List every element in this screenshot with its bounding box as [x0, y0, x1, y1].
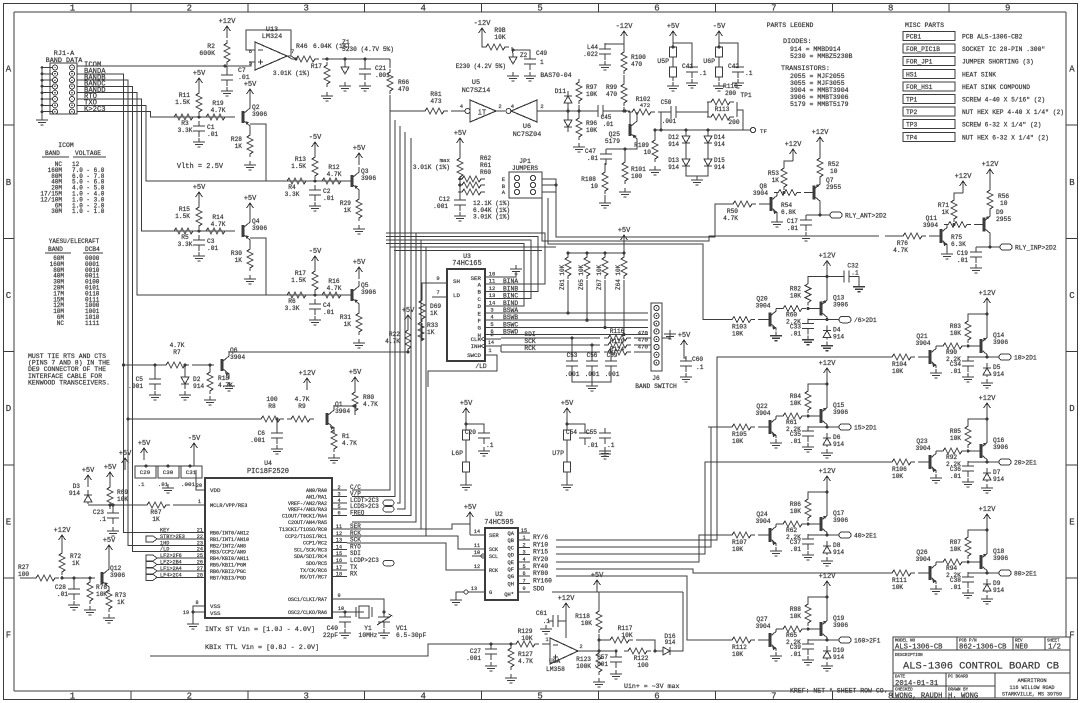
svg-text:10K: 10K — [732, 651, 743, 658]
svg-text:RB6/KBI2/PGC: RB6/KBI2/PGC — [210, 569, 246, 575]
svg-text:3906: 3906 — [252, 111, 267, 118]
svg-text:C: C — [6, 291, 12, 301]
svg-text:R52: R52 — [828, 161, 839, 168]
svg-text:.01: .01 — [957, 257, 968, 264]
svg-text:R14: R14 — [212, 214, 223, 221]
power +5V pullups — [621, 235, 628, 247]
svg-text:R8: R8 — [268, 403, 276, 410]
wire r118 node — [598, 634, 600, 651]
driver cell 20 (Q23/Q16) — [868, 461, 888, 463]
svg-text:R60: R60 — [786, 312, 797, 319]
svg-text:10: 10 — [1000, 200, 1008, 207]
power +12V R2 — [224, 26, 231, 38]
wire TF line — [655, 129, 750, 131]
svg-text:AN1/RA1: AN1/RA1 — [306, 494, 327, 500]
svg-text:U6: U6 — [523, 123, 531, 131]
svg-text:.1: .1 — [99, 516, 107, 523]
svg-text:DCB4: DCB4 — [85, 246, 100, 253]
svg-text:C20: C20 — [465, 429, 476, 436]
svg-text:.01: .01 — [587, 442, 598, 449]
svg-text:13: 13 — [336, 538, 342, 544]
resistor R129 — [512, 641, 539, 647]
svg-text:18: 18 — [336, 572, 342, 578]
svg-text:3.01K (1%): 3.01K (1%) — [413, 164, 450, 171]
svg-text:1K: 1K — [772, 177, 780, 184]
svg-text:2: 2 — [187, 692, 192, 702]
svg-text:PCB ALS-1306-CB2: PCB ALS-1306-CB2 — [962, 34, 1023, 41]
svg-text:.01: .01 — [950, 368, 961, 375]
svg-text:CCP1/RC2: CCP1/RC2 — [303, 541, 327, 547]
svg-text:.01: .01 — [238, 74, 250, 81]
svg-text:R107: R107 — [732, 539, 747, 546]
capacitor C45 — [593, 105, 609, 117]
svg-text:R62: R62 — [786, 527, 797, 534]
svg-text:Q19: Q19 — [833, 615, 845, 622]
svg-text:D: D — [1069, 404, 1074, 414]
wire top trunk1 — [295, 58, 297, 60]
svg-text:4: 4 — [522, 557, 525, 563]
svg-text:4.7K: 4.7K — [170, 342, 185, 349]
svg-text:473: 473 — [430, 98, 441, 105]
svg-text:74HC595: 74HC595 — [484, 519, 513, 527]
capacitor C7 — [221, 70, 233, 86]
wire bsw bus — [501, 312, 648, 314]
resistor R9B — [482, 44, 509, 50]
svg-text:10K: 10K — [790, 400, 801, 407]
resistor pullup Z61 — [565, 254, 571, 279]
svg-text:914: 914 — [833, 549, 844, 556]
resistor R108 — [602, 169, 608, 194]
wire JP1 right — [542, 179, 556, 192]
svg-text:R86: R86 — [790, 501, 801, 508]
wire R46-R17 — [322, 58, 390, 60]
svg-text:U3: U3 — [463, 253, 471, 260]
svg-text:3906: 3906 — [110, 572, 125, 579]
svg-text:STARKVILLE, MS 39759: STARKVILLE, MS 39759 — [1002, 692, 1062, 698]
svg-text:R106: R106 — [892, 466, 907, 473]
svg-text:YAESU/ELECRAFT: YAESU/ELECRAFT — [49, 238, 100, 245]
svg-text:4.7K: 4.7K — [327, 285, 342, 292]
svg-text:914 = MMBD914: 914 = MMBD914 — [790, 46, 841, 53]
svg-text:R85: R85 — [950, 428, 961, 435]
capacitor C21 — [359, 64, 371, 80]
svg-text:OSC2/CLKO/RA6: OSC2/CLKO/RA6 — [288, 610, 327, 616]
svg-text:4.7K: 4.7K — [363, 401, 378, 408]
svg-text:R129: R129 — [518, 628, 533, 635]
svg-text:3906: 3906 — [833, 622, 848, 629]
svg-text:C40: C40 — [327, 625, 339, 632]
svg-text:max: max — [440, 157, 451, 164]
svg-text:ALS-1306-CB: ALS-1306-CB — [895, 644, 943, 652]
svg-text:20: 20 — [196, 483, 202, 489]
svg-text:NE0: NE0 — [1015, 644, 1028, 652]
wire r129-opamp — [542, 644, 550, 645]
cap group C29C30C31 — [135, 466, 156, 478]
svg-text:1: 1 — [70, 692, 75, 702]
svg-text:VREF-/AN2/RA2: VREF-/AN2/RA2 — [288, 501, 327, 507]
driver cell 40 (Q24/Q17) — [708, 534, 728, 536]
svg-text:NC7SZ14: NC7SZ14 — [462, 87, 491, 95]
resistor pullup Z65 — [584, 254, 590, 279]
svg-text:Q26: Q26 — [916, 549, 928, 556]
ground C23 — [107, 527, 119, 536]
svg-text:.01: .01 — [323, 309, 334, 316]
svg-text:BAND SWITCH: BAND SWITCH — [635, 383, 677, 390]
svg-text:U6P: U6P — [703, 58, 715, 65]
svg-text:RY/6: RY/6 — [533, 534, 548, 541]
misc part row FOR_JP1 — [903, 57, 955, 66]
svg-text:U5: U5 — [472, 79, 480, 87]
svg-text:1K: 1K — [942, 209, 950, 216]
svg-text:NC7SZ04: NC7SZ04 — [513, 131, 542, 139]
wire divider node — [458, 181, 460, 192]
svg-text:74HC165: 74HC165 — [452, 260, 481, 268]
wire -12V node — [623, 107, 625, 111]
svg-text:3906: 3906 — [993, 555, 1008, 562]
svg-text:2055 = MJF2055: 2055 = MJF2055 — [790, 73, 845, 80]
svg-text:10K: 10K — [581, 620, 592, 627]
svg-text:.01: .01 — [158, 481, 169, 488]
svg-text:1.5K: 1.5K — [291, 163, 306, 170]
svg-text:C37: C37 — [790, 539, 801, 546]
diode D2 — [181, 375, 189, 389]
svg-text:+12V: +12V — [979, 290, 997, 298]
svg-text:QB: QB — [508, 538, 515, 544]
svg-text:H. WONG: H. WONG — [948, 693, 978, 701]
svg-text:+5V: +5V — [244, 81, 257, 89]
resistor R60 — [458, 189, 485, 195]
IC U3 74HC165 — [447, 269, 485, 361]
ground C7 — [221, 87, 233, 96]
svg-text:HEAT SINK: HEAT SINK — [962, 71, 996, 78]
svg-text:Q2: Q2 — [252, 104, 260, 111]
resistor R97 — [576, 79, 582, 104]
svg-text:R100: R100 — [631, 54, 646, 61]
svg-text:5179 = MMBT5179: 5179 = MMBT5179 — [790, 101, 849, 108]
resistor R2 — [224, 40, 230, 65]
svg-text:3904: 3904 — [915, 340, 930, 347]
resistor R61 — [458, 182, 485, 188]
svg-text:SCL/SCK/RC3: SCL/SCK/RC3 — [294, 547, 327, 553]
svg-text:Q13: Q13 — [833, 295, 845, 302]
svg-text:12: 12 — [489, 285, 496, 292]
bus taps thresholds — [124, 364, 151, 366]
svg-text:C30: C30 — [163, 469, 174, 476]
svg-text:CCP2/T1OSI/RC1: CCP2/T1OSI/RC1 — [285, 534, 327, 540]
svg-text:TP3: TP3 — [906, 122, 918, 129]
svg-text:KBIx TTL Vin = [0.8J - 2.0V]: KBIx TTL Vin = [0.8J - 2.0V] — [205, 644, 319, 652]
svg-text:3.3K: 3.3K — [178, 127, 193, 134]
capacitor C50 — [666, 106, 682, 118]
svg-text:RB2/INT2/AN8: RB2/INT2/AN8 — [210, 543, 246, 549]
svg-text:3055 = MJF3055: 3055 = MJF3055 — [790, 80, 845, 87]
svg-text:U5P: U5P — [657, 58, 669, 65]
testpoint TF — [750, 127, 755, 132]
svg-text:+5V: +5V — [454, 130, 467, 138]
diode D11b — [564, 118, 572, 132]
svg-text:+12V: +12V — [54, 527, 72, 535]
svg-text:R4: R4 — [288, 184, 296, 191]
svg-text:15: 15 — [336, 551, 342, 557]
svg-text:10K: 10K — [950, 435, 961, 442]
svg-text:5: 5 — [249, 60, 252, 67]
svg-text:914: 914 — [665, 639, 676, 646]
svg-text:5: 5 — [490, 321, 493, 328]
svg-text:Vlth = 2.5V: Vlth = 2.5V — [177, 163, 224, 171]
transistor Q1 — [326, 413, 329, 425]
resistor R124 — [604, 349, 631, 355]
svg-text:R12: R12 — [328, 164, 339, 171]
svg-text:914: 914 — [714, 141, 725, 148]
wire pullup joins — [567, 280, 569, 313]
ground C21 — [359, 82, 371, 91]
svg-text:R111: R111 — [892, 577, 907, 584]
wire sdi row — [501, 337, 600, 339]
svg-text:SOCKET IC 28-PIN .300": SOCKET IC 28-PIN .300" — [962, 46, 1045, 53]
svg-text:3904 = MMBT3904: 3904 = MMBT3904 — [790, 87, 849, 94]
IC U4 VDD pin — [196, 470, 205, 490]
svg-text:C21: C21 — [375, 65, 386, 72]
svg-text:RY20: RY20 — [533, 556, 548, 563]
svg-text:3: 3 — [304, 692, 309, 702]
svg-text:3: 3 — [490, 307, 493, 314]
svg-text:1.5K: 1.5K — [175, 99, 190, 106]
zener Z2 — [509, 55, 517, 64]
svg-text:470: 470 — [631, 61, 642, 68]
svg-text:R9: R9 — [298, 403, 306, 410]
svg-text:2: 2 — [522, 542, 525, 548]
svg-text:.1: .1 — [607, 442, 615, 449]
filter U7P — [564, 408, 571, 420]
svg-text:G: G — [478, 325, 482, 332]
svg-text:Q1: Q1 — [335, 401, 343, 408]
svg-text:DATE: DATE — [895, 676, 906, 680]
svg-text:1K: 1K — [117, 599, 125, 606]
svg-text:470: 470 — [398, 86, 409, 93]
svg-text:R50: R50 — [727, 208, 738, 215]
svg-text:/LD: /LD — [475, 363, 487, 370]
svg-text:C49: C49 — [536, 50, 547, 57]
wire Q1 col — [334, 406, 355, 415]
svg-text:9: 9 — [337, 593, 340, 599]
svg-text:C54: C54 — [566, 429, 577, 436]
svg-text:+5V: +5V — [349, 369, 362, 377]
svg-text:5: 5 — [522, 564, 525, 570]
svg-text:+5V: +5V — [193, 70, 206, 78]
filter U5P — [670, 31, 677, 43]
ground R96 — [573, 143, 585, 152]
svg-text:Q14: Q14 — [993, 332, 1005, 339]
svg-text:C: C — [1069, 291, 1075, 301]
svg-text:+5V: +5V — [104, 464, 117, 472]
wire rck row — [501, 351, 600, 353]
svg-text:R73: R73 — [115, 592, 126, 599]
transistor Q12 — [101, 572, 104, 584]
svg-text:10K: 10K — [950, 330, 961, 337]
svg-text:3: 3 — [337, 491, 340, 497]
svg-text:R82: R82 — [790, 286, 801, 293]
svg-text:AN0/RA0: AN0/RA0 — [306, 488, 327, 494]
svg-text:R96: R96 — [586, 120, 597, 127]
svg-text:Y1: Y1 — [364, 625, 372, 632]
misc part row TP3 — [903, 120, 955, 129]
svg-text:914: 914 — [668, 141, 679, 148]
svg-text:VSS: VSS — [210, 610, 221, 617]
svg-text:+5V: +5V — [460, 400, 473, 408]
capacitor C40 — [339, 612, 351, 628]
svg-text:11: 11 — [336, 524, 342, 530]
svg-text:+5V: +5V — [244, 195, 257, 203]
svg-text:B: B — [478, 289, 482, 296]
misc part row TP2 — [903, 107, 955, 116]
svg-text:KREF: NET * SHEET ROW CO.: KREF: NET * SHEET ROW CO. — [790, 688, 888, 695]
svg-text:R110: R110 — [723, 83, 738, 90]
driver cell 80 (Q26/Q18) — [868, 572, 888, 574]
wire R66 down — [390, 95, 402, 111]
svg-text:R65: R65 — [786, 632, 797, 639]
svg-text:R53: R53 — [768, 170, 779, 177]
svg-text:SDO: SDO — [533, 586, 545, 593]
svg-text:862-1306-CB: 862-1306-CB — [959, 644, 1007, 652]
connector J6 — [651, 303, 662, 371]
wire R102 out — [658, 112, 661, 130]
svg-text:C57: C57 — [597, 654, 608, 661]
svg-text:R62: R62 — [480, 155, 491, 162]
svg-text:1.0 - 1.0: 1.0 - 1.0 — [72, 208, 105, 215]
svg-text:PCB1: PCB1 — [906, 34, 921, 41]
wire bottom audio — [150, 644, 512, 656]
svg-text:.01: .01 — [323, 195, 334, 202]
svg-text:470: 470 — [638, 330, 649, 337]
svg-text:TRANSISTORS:: TRANSISTORS: — [781, 65, 830, 73]
resistor R110 — [707, 99, 734, 105]
svg-text:R16: R16 — [328, 278, 339, 285]
svg-text:TP4: TP4 — [906, 134, 918, 141]
svg-text:+12V: +12V — [979, 506, 997, 514]
svg-text:J6: J6 — [652, 375, 660, 382]
wire Z2-C49 — [513, 50, 530, 56]
svg-text:R109: R109 — [634, 142, 649, 149]
svg-text:Q15: Q15 — [833, 402, 845, 409]
svg-text:4: 4 — [420, 4, 425, 14]
bus trio right — [556, 204, 729, 237]
wire R2-node — [226, 66, 228, 70]
svg-text:10K: 10K — [494, 34, 505, 41]
capacitor C5 — [149, 374, 161, 390]
svg-text:RB4/KBI0/AN11: RB4/KBI0/AN11 — [210, 556, 249, 562]
filter L6P — [463, 408, 470, 420]
transistor cell Q4 — [170, 230, 235, 232]
svg-text:+5V: +5V — [618, 227, 631, 235]
svg-text:14: 14 — [489, 299, 496, 306]
svg-text:.001: .001 — [662, 118, 677, 125]
svg-text:.022: .022 — [583, 51, 598, 58]
resistor R46 — [292, 56, 319, 62]
svg-text:2014-01-31: 2014-01-31 — [895, 680, 938, 688]
svg-text:4.7K: 4.7K — [385, 338, 400, 345]
svg-text:R30: R30 — [231, 250, 242, 257]
svg-text:116 WILLOW ROAD: 116 WILLOW ROAD — [1009, 685, 1054, 691]
wire C45-node — [607, 110, 625, 112]
resistor R127 — [508, 645, 514, 670]
svg-text:19: 19 — [183, 610, 189, 616]
svg-text:D15: D15 — [714, 157, 725, 164]
svg-text:Q7: Q7 — [826, 177, 834, 184]
capacitor C12 — [454, 195, 466, 211]
svg-text:600K: 600K — [199, 50, 215, 57]
svg-text:K>2C3: K>2C3 — [84, 106, 106, 114]
transistor Q6 — [221, 359, 224, 371]
svg-text:6.8K: 6.8K — [781, 209, 796, 216]
svg-text:RB7/KBI3/PGD: RB7/KBI3/PGD — [210, 575, 246, 581]
svg-text:D9: D9 — [996, 209, 1004, 216]
svg-text:QF: QF — [508, 567, 514, 573]
driver cell /6 (Q20/Q13) — [708, 319, 728, 321]
wire Q2 to Q3 row — [250, 124, 280, 181]
svg-text:C35: C35 — [790, 431, 801, 438]
wire sdo-long — [552, 591, 683, 593]
svg-text:14: 14 — [336, 544, 342, 550]
svg-text:C12: C12 — [439, 196, 450, 203]
svg-text:914: 914 — [993, 371, 1004, 378]
capacitor C47 — [600, 149, 612, 165]
svg-text:+5V: +5V — [103, 537, 116, 545]
svg-text:D13: D13 — [668, 157, 679, 164]
svg-text:+12V: +12V — [819, 360, 837, 368]
svg-text:D: D — [6, 404, 11, 414]
svg-text:R31: R31 — [340, 314, 351, 321]
svg-text:Q23: Q23 — [916, 438, 928, 445]
crystal Y1 — [356, 607, 372, 617]
svg-text:C42: C42 — [728, 63, 739, 70]
svg-text:R17: R17 — [295, 270, 306, 277]
wire q12 node — [62, 577, 95, 579]
svg-text:R117: R117 — [618, 625, 633, 632]
svg-text:3904: 3904 — [755, 518, 770, 525]
svg-text:B: B — [6, 178, 12, 188]
svg-text:+12V: +12V — [558, 595, 576, 603]
svg-text:C6: C6 — [258, 430, 266, 437]
svg-text:C39: C39 — [790, 644, 801, 651]
svg-text:D8: D8 — [833, 542, 841, 549]
IC U2 74HC595 — [485, 528, 518, 600]
resistor R69 — [107, 484, 113, 509]
svg-text:Q22: Q22 — [756, 403, 768, 410]
svg-text:R28: R28 — [231, 136, 242, 143]
svg-text:Uin+ = ~3V max: Uin+ = ~3V max — [624, 683, 679, 690]
svg-text:100K: 100K — [576, 663, 591, 670]
svg-text:10K: 10K — [892, 368, 903, 375]
svg-text:Q3: Q3 — [361, 168, 369, 175]
svg-text:14: 14 — [474, 529, 480, 535]
svg-text:14: 14 — [488, 340, 494, 346]
svg-text:Z64 10K: Z64 10K — [615, 264, 622, 290]
svg-text:914: 914 — [833, 334, 844, 341]
svg-text:2: 2 — [498, 103, 501, 110]
capacitor C28 — [68, 584, 80, 600]
ground R17 — [321, 92, 333, 101]
svg-text:NUT HEX 6-32 X 1/4" (2): NUT HEX 6-32 X 1/4" (2) — [962, 134, 1049, 141]
svg-text:.01: .01 — [790, 331, 801, 338]
power +5V U2 — [467, 512, 474, 524]
svg-text:100: 100 — [637, 662, 648, 669]
wire U13 feedback — [246, 30, 291, 56]
transistor cell Q5 — [280, 294, 352, 296]
svg-text:D11: D11 — [555, 88, 567, 95]
power -12V b — [479, 28, 486, 40]
svg-text:-12V: -12V — [474, 20, 492, 28]
svg-text:JP1: JP1 — [519, 158, 531, 165]
